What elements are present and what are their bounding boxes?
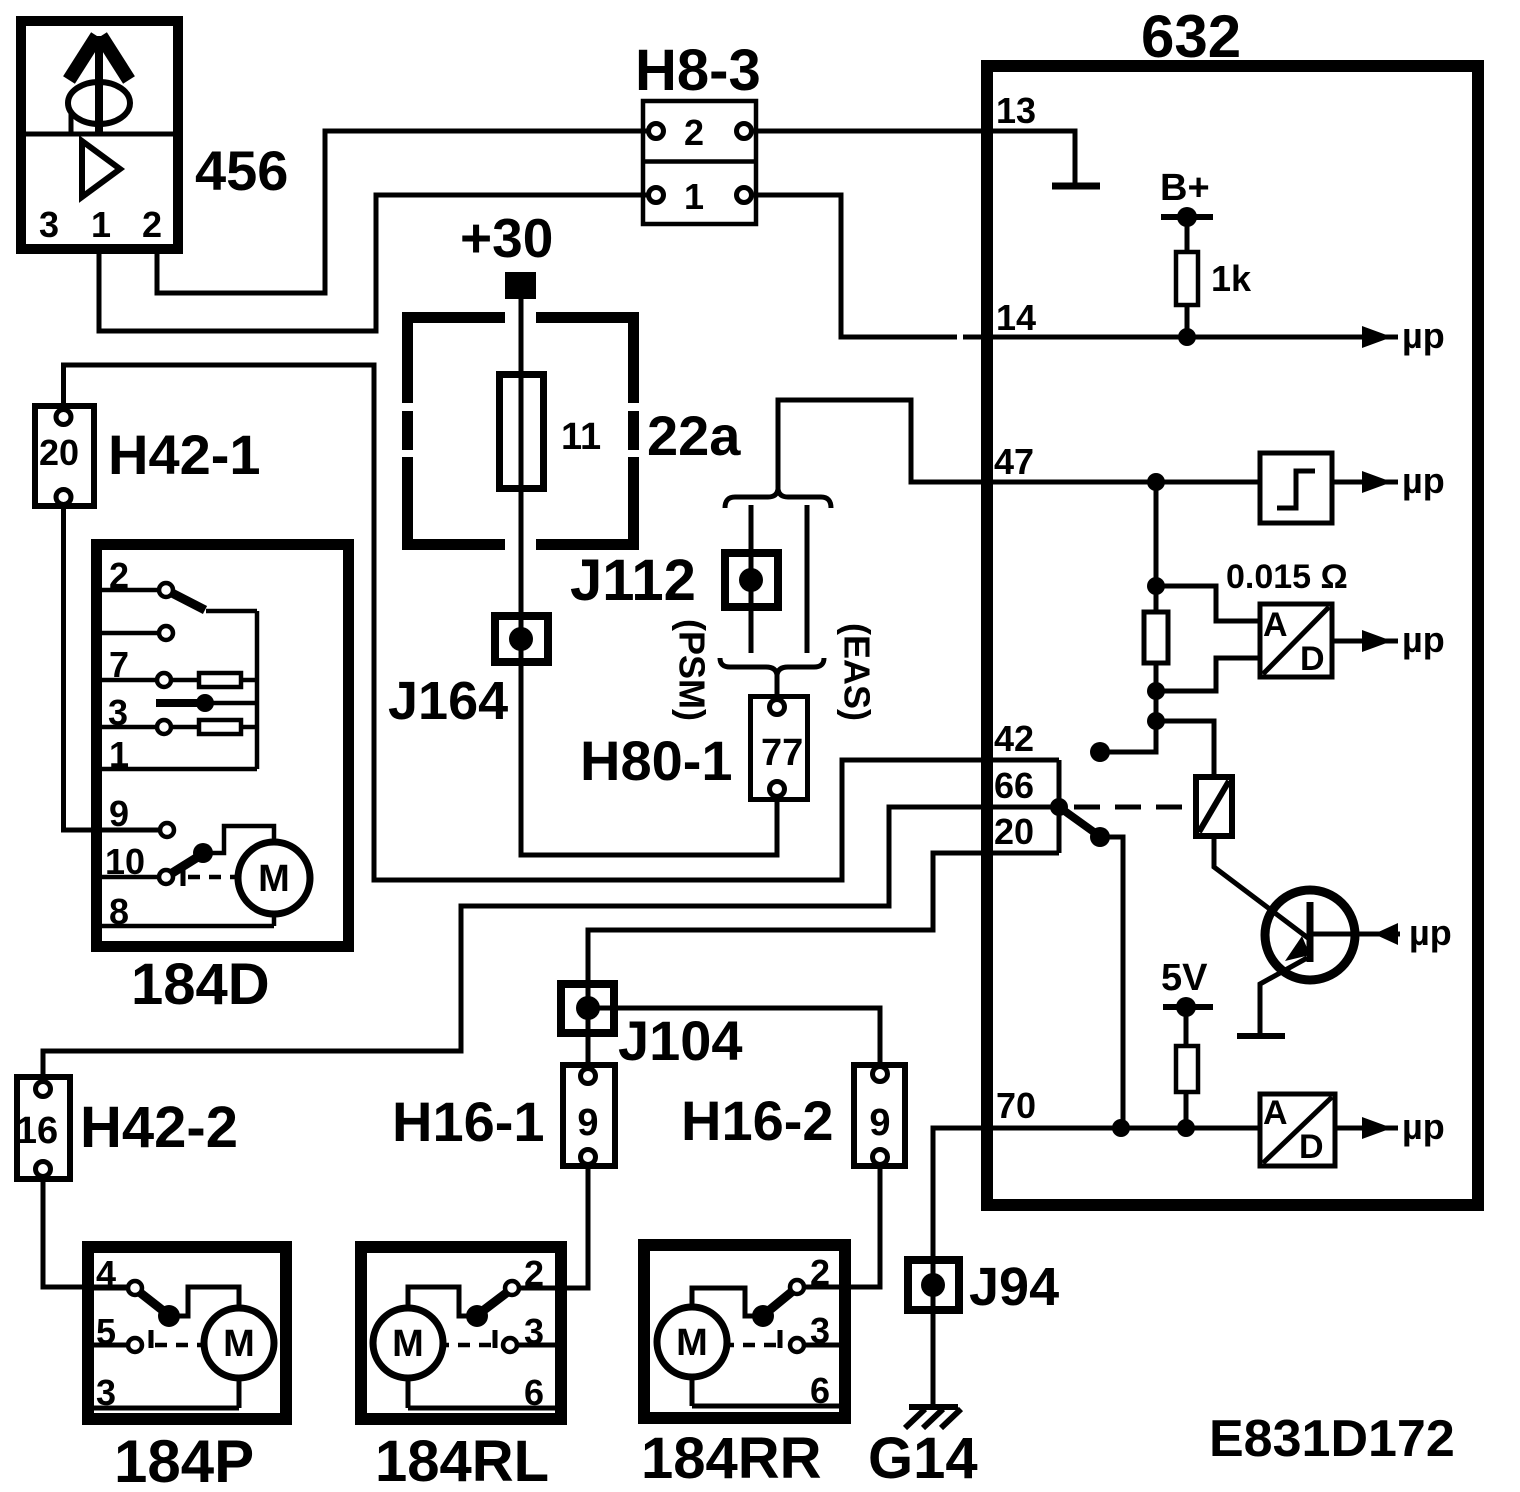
svg-text:+30: +30 <box>460 207 553 269</box>
svg-text:M: M <box>392 1323 424 1365</box>
184P rows <box>94 1287 239 1408</box>
184RL lever <box>480 1291 509 1313</box>
wire A-D2 output <box>1337 1126 1398 1131</box>
mirror assembly 184D box <box>97 545 349 947</box>
lower brace (PSM/EAS) <box>720 658 824 675</box>
resistor 1k <box>1176 252 1198 305</box>
svg-text:H80-1: H80-1 <box>580 729 733 792</box>
schmitt trigger box <box>1260 453 1332 523</box>
svg-text:70: 70 <box>996 1085 1036 1126</box>
internal ground bar at emitter <box>1237 1033 1285 1039</box>
wire B+ branch through 1k <box>1185 217 1190 337</box>
wire schmitt output <box>1332 480 1398 485</box>
svg-text:2: 2 <box>524 1253 544 1294</box>
mirror motor 184RR box <box>644 1245 845 1418</box>
svg-text:3: 3 <box>39 204 59 245</box>
184RL detent tick <box>493 1330 498 1348</box>
ground symbol at pin13 <box>1052 183 1100 190</box>
svg-text:4: 4 <box>96 1253 116 1294</box>
wire +30 feed through fuse 11 and J164 to H80-1 pin77 <box>521 297 777 855</box>
wire EAS line <box>805 505 810 653</box>
wire transistor collector to uP <box>1310 932 1400 937</box>
svg-text:D: D <box>1299 1128 1324 1166</box>
wire H16-2 pin9 to 184RR pin2 <box>804 1160 880 1287</box>
wire shunt to A-D top input <box>1156 586 1260 621</box>
relay actuation dashed link <box>1074 805 1194 810</box>
relay coil box <box>1196 777 1232 836</box>
svg-text:10: 10 <box>105 841 145 882</box>
svg-text:2: 2 <box>109 555 129 596</box>
184RR motor M <box>657 1307 727 1377</box>
184RL motor M <box>373 1308 443 1378</box>
svg-text:G14: G14 <box>868 1426 978 1491</box>
junction J94 <box>908 1260 959 1310</box>
svg-text:3: 3 <box>810 1310 830 1351</box>
junction J164 <box>495 616 548 662</box>
svg-text:11: 11 <box>561 416 601 458</box>
svg-text:3: 3 <box>524 1311 544 1352</box>
svg-text:77: 77 <box>761 732 803 774</box>
svg-text:J104: J104 <box>618 1009 743 1072</box>
contact dot A <box>1090 742 1110 762</box>
junction dot pin47 <box>1147 473 1165 491</box>
svg-text:(PSM): (PSM) <box>672 619 713 721</box>
wire H8-3 pin2 to 632 pin13 <box>753 129 987 134</box>
svg-text:1: 1 <box>109 734 129 775</box>
wire H8-3 pin1 to 632 pin14 (gap before connector) <box>753 195 957 337</box>
wire 632 pin66 to H42-2 pin16 <box>43 807 1059 1086</box>
mirror switch 456 box <box>21 21 178 249</box>
wire branch to relay coil <box>1156 721 1214 777</box>
svg-text:8: 8 <box>109 891 129 932</box>
svg-text:µp: µp <box>1402 619 1445 660</box>
wire A-D1 output <box>1332 639 1398 644</box>
wire 632 pin20 to J104 and H16-1 <box>588 853 1059 1070</box>
svg-text:3: 3 <box>108 692 128 733</box>
switch lever 66 <box>1059 807 1098 835</box>
wire relay contact C to pin70 line <box>1100 837 1123 1128</box>
uP arrow A-D1 <box>1362 630 1392 652</box>
connector H16-2 box <box>854 1065 905 1166</box>
svg-text:H16-1: H16-1 <box>392 1090 545 1153</box>
wire 456 pin2 to H8-3 pin2 <box>157 131 647 293</box>
shunt resistor 0.015 ohm <box>1144 612 1168 663</box>
svg-text:µp: µp <box>1402 1106 1445 1147</box>
switch bus 42-66-20 <box>1057 760 1062 853</box>
184D detent tick <box>181 864 186 886</box>
svg-text:B+: B+ <box>1160 167 1210 209</box>
junction dot relay branch <box>1147 712 1165 730</box>
456 triangle symbol <box>82 141 120 197</box>
184D contact circles <box>157 583 174 884</box>
connector H16-2 pins <box>873 1067 888 1165</box>
184D lever dot <box>193 843 213 863</box>
svg-text:1k: 1k <box>1211 258 1252 299</box>
connector H42-2 box <box>17 1077 70 1179</box>
A-D converter box 1 <box>1260 604 1332 677</box>
5V supply dot and bar <box>1163 997 1213 1017</box>
184RL detent dashes <box>443 1343 491 1348</box>
fuse 11 <box>500 375 544 489</box>
svg-text:A: A <box>1263 606 1288 644</box>
svg-text:456: 456 <box>195 139 288 202</box>
fusebox 22a dashed border <box>402 312 639 550</box>
contact dot C <box>1090 827 1110 847</box>
184P lever <box>138 1291 166 1313</box>
184D switch lever pin10 <box>169 855 201 875</box>
184P lever dot <box>158 1305 180 1327</box>
wire H16-1 pin9 to 184RL pin2 <box>519 1163 588 1288</box>
svg-text:2: 2 <box>810 1252 830 1293</box>
184D switch lever pin2 <box>170 592 205 610</box>
svg-text:1: 1 <box>684 176 704 217</box>
svg-text:3: 3 <box>96 1372 116 1413</box>
junction J112 <box>725 553 778 607</box>
svg-text:2: 2 <box>684 112 704 153</box>
184D inner rows <box>102 590 274 926</box>
svg-text:µp: µp <box>1402 315 1445 356</box>
svg-text:J112: J112 <box>570 548 696 613</box>
svg-text:5V: 5V <box>1161 957 1208 999</box>
junction J104 <box>561 984 614 1033</box>
B+ supply dot and bar <box>1161 207 1213 227</box>
connector H16-1 box <box>563 1065 615 1166</box>
wire J104 to H16-2 <box>592 1008 880 1068</box>
svg-text:H42-2: H42-2 <box>80 1095 238 1160</box>
184RR detent dashes <box>728 1343 776 1348</box>
svg-text:20: 20 <box>39 432 79 473</box>
connector H42-1 box <box>35 406 94 506</box>
svg-text:2: 2 <box>142 204 162 245</box>
junction dot pin66 <box>1050 798 1068 816</box>
wire brace to 632 pin47 <box>778 400 1258 492</box>
svg-text:66: 66 <box>994 765 1034 806</box>
svg-text:14: 14 <box>996 297 1036 338</box>
uP arrow pin47 <box>1362 471 1392 493</box>
connector H42-2 pins <box>36 1082 51 1177</box>
184D wiper dot <box>196 694 214 712</box>
connector H80-1 box <box>751 697 808 800</box>
456 arrow symbol <box>69 36 129 134</box>
connector H16-1 pins <box>581 1069 596 1165</box>
184P detent dashes <box>155 1343 204 1348</box>
184RL contacts <box>503 1281 519 1352</box>
wire 632 pin70 internal to uP arrow <box>987 1126 1258 1131</box>
+30 supply square <box>505 272 536 299</box>
uP arrow A-D2 <box>1362 1117 1392 1139</box>
svg-text:184RL: 184RL <box>375 1429 549 1492</box>
junction dot pin14/1k <box>1178 328 1196 346</box>
svg-text:µp: µp <box>1402 460 1445 501</box>
svg-text:M: M <box>676 1322 708 1364</box>
transistor emitter arrowhead <box>1285 936 1310 961</box>
svg-text:184RR: 184RR <box>641 1426 822 1491</box>
ECU 632 box <box>987 66 1478 1205</box>
svg-text:(EAS): (EAS) <box>837 623 878 721</box>
upper brace (PSM/EAS) <box>725 489 831 508</box>
svg-text:H42-1: H42-1 <box>108 423 261 486</box>
svg-text:9: 9 <box>577 1102 598 1144</box>
svg-text:16: 16 <box>16 1110 58 1152</box>
wire relay coil to transistor base <box>1214 836 1308 938</box>
wire transistor emitter to internal ground <box>1260 958 1307 1036</box>
svg-text:5: 5 <box>96 1311 116 1352</box>
svg-text:9: 9 <box>109 793 129 834</box>
svg-text:J94: J94 <box>969 1257 1059 1317</box>
ground G14 symbol <box>905 1407 961 1428</box>
184P motor M <box>204 1308 274 1378</box>
svg-text:1: 1 <box>91 204 111 245</box>
svg-text:632: 632 <box>1141 3 1241 70</box>
svg-text:9: 9 <box>869 1102 890 1144</box>
svg-text:µp: µp <box>1409 912 1452 953</box>
connector H80-1 pins <box>770 700 785 797</box>
wire 5V branch through resistor <box>1184 1007 1189 1128</box>
svg-text:6: 6 <box>524 1372 544 1413</box>
456 lamp ellipse <box>68 82 130 124</box>
184P detent tick <box>149 1330 154 1348</box>
184RR rows <box>692 1287 839 1406</box>
svg-text:6: 6 <box>810 1370 830 1411</box>
wire 632 pin70 to J94 and ground G14 <box>933 1128 987 1405</box>
wire 456 pin1 to H8-3 pin1 <box>99 195 647 331</box>
184D detent dashes <box>188 875 238 880</box>
wire 632 pin42 to H42-1 pin20 <box>64 365 1060 880</box>
wire shunt to A-D bottom input <box>1156 658 1260 691</box>
svg-text:42: 42 <box>994 718 1034 759</box>
svg-text:22a: 22a <box>647 404 741 467</box>
svg-text:7: 7 <box>109 644 129 685</box>
resistor at 5V <box>1176 1046 1198 1092</box>
184D resistor pin1 <box>199 720 241 734</box>
svg-text:E831D172: E831D172 <box>1209 1410 1455 1468</box>
wire 632 pin13 to internal ground <box>987 131 1075 183</box>
wire 632 pin14 internal to uP arrow <box>963 335 1398 340</box>
transistor base bar <box>1307 902 1314 962</box>
junction dot pin70 5V <box>1177 1119 1195 1137</box>
uP arrow transistor (left pointing) <box>1374 923 1398 945</box>
wire 47 junction down through shunt chain <box>1103 482 1156 752</box>
svg-text:13: 13 <box>996 90 1036 131</box>
svg-text:H8-3: H8-3 <box>635 38 761 103</box>
184RR lever dot <box>752 1305 774 1327</box>
184RR detent tick <box>778 1330 783 1348</box>
svg-text:D: D <box>1300 640 1325 678</box>
184RL rows <box>408 1287 555 1408</box>
connector H42-1 pins <box>56 410 71 505</box>
mirror motor 184P box <box>88 1247 286 1419</box>
svg-text:47: 47 <box>994 441 1034 482</box>
184P contacts <box>128 1281 142 1352</box>
wire PSM line through J112 <box>749 505 754 653</box>
svg-text:M: M <box>258 858 290 900</box>
svg-text:0.015 Ω: 0.015 Ω <box>1226 558 1348 596</box>
A-D converter box 2 <box>1260 1094 1335 1166</box>
mirror motor 184RL box <box>361 1247 561 1419</box>
svg-text:H16-2: H16-2 <box>681 1089 834 1152</box>
uP arrow pin14 <box>1362 326 1392 348</box>
svg-text:A: A <box>1263 1094 1288 1132</box>
svg-text:184P: 184P <box>114 1428 254 1492</box>
svg-text:20: 20 <box>994 811 1034 852</box>
transistor Q1 circle <box>1265 890 1355 980</box>
wire brace tip to H80-1 pin77 top <box>775 674 780 703</box>
184RR lever <box>766 1290 794 1313</box>
184RL lever dot <box>466 1305 488 1327</box>
184D wiper segment pin3 <box>156 699 200 707</box>
184RR contacts <box>790 1280 804 1352</box>
184D resistor pin7 <box>199 673 241 687</box>
junction dot pin70 left <box>1112 1119 1130 1137</box>
svg-text:M: M <box>223 1323 255 1365</box>
junction dot shunt bottom <box>1147 682 1165 700</box>
junction dot shunt top <box>1147 577 1165 595</box>
svg-text:J164: J164 <box>388 671 508 731</box>
184D motor M <box>238 842 310 914</box>
wire H42-2 pin16 to 184P pin4 <box>43 1173 128 1287</box>
connector H8-3 box <box>643 101 756 224</box>
svg-text:184D: 184D <box>131 952 270 1017</box>
wire H42-1 pin20 to 184D pin9 <box>64 503 161 830</box>
connector H8-3 pins <box>649 124 752 203</box>
